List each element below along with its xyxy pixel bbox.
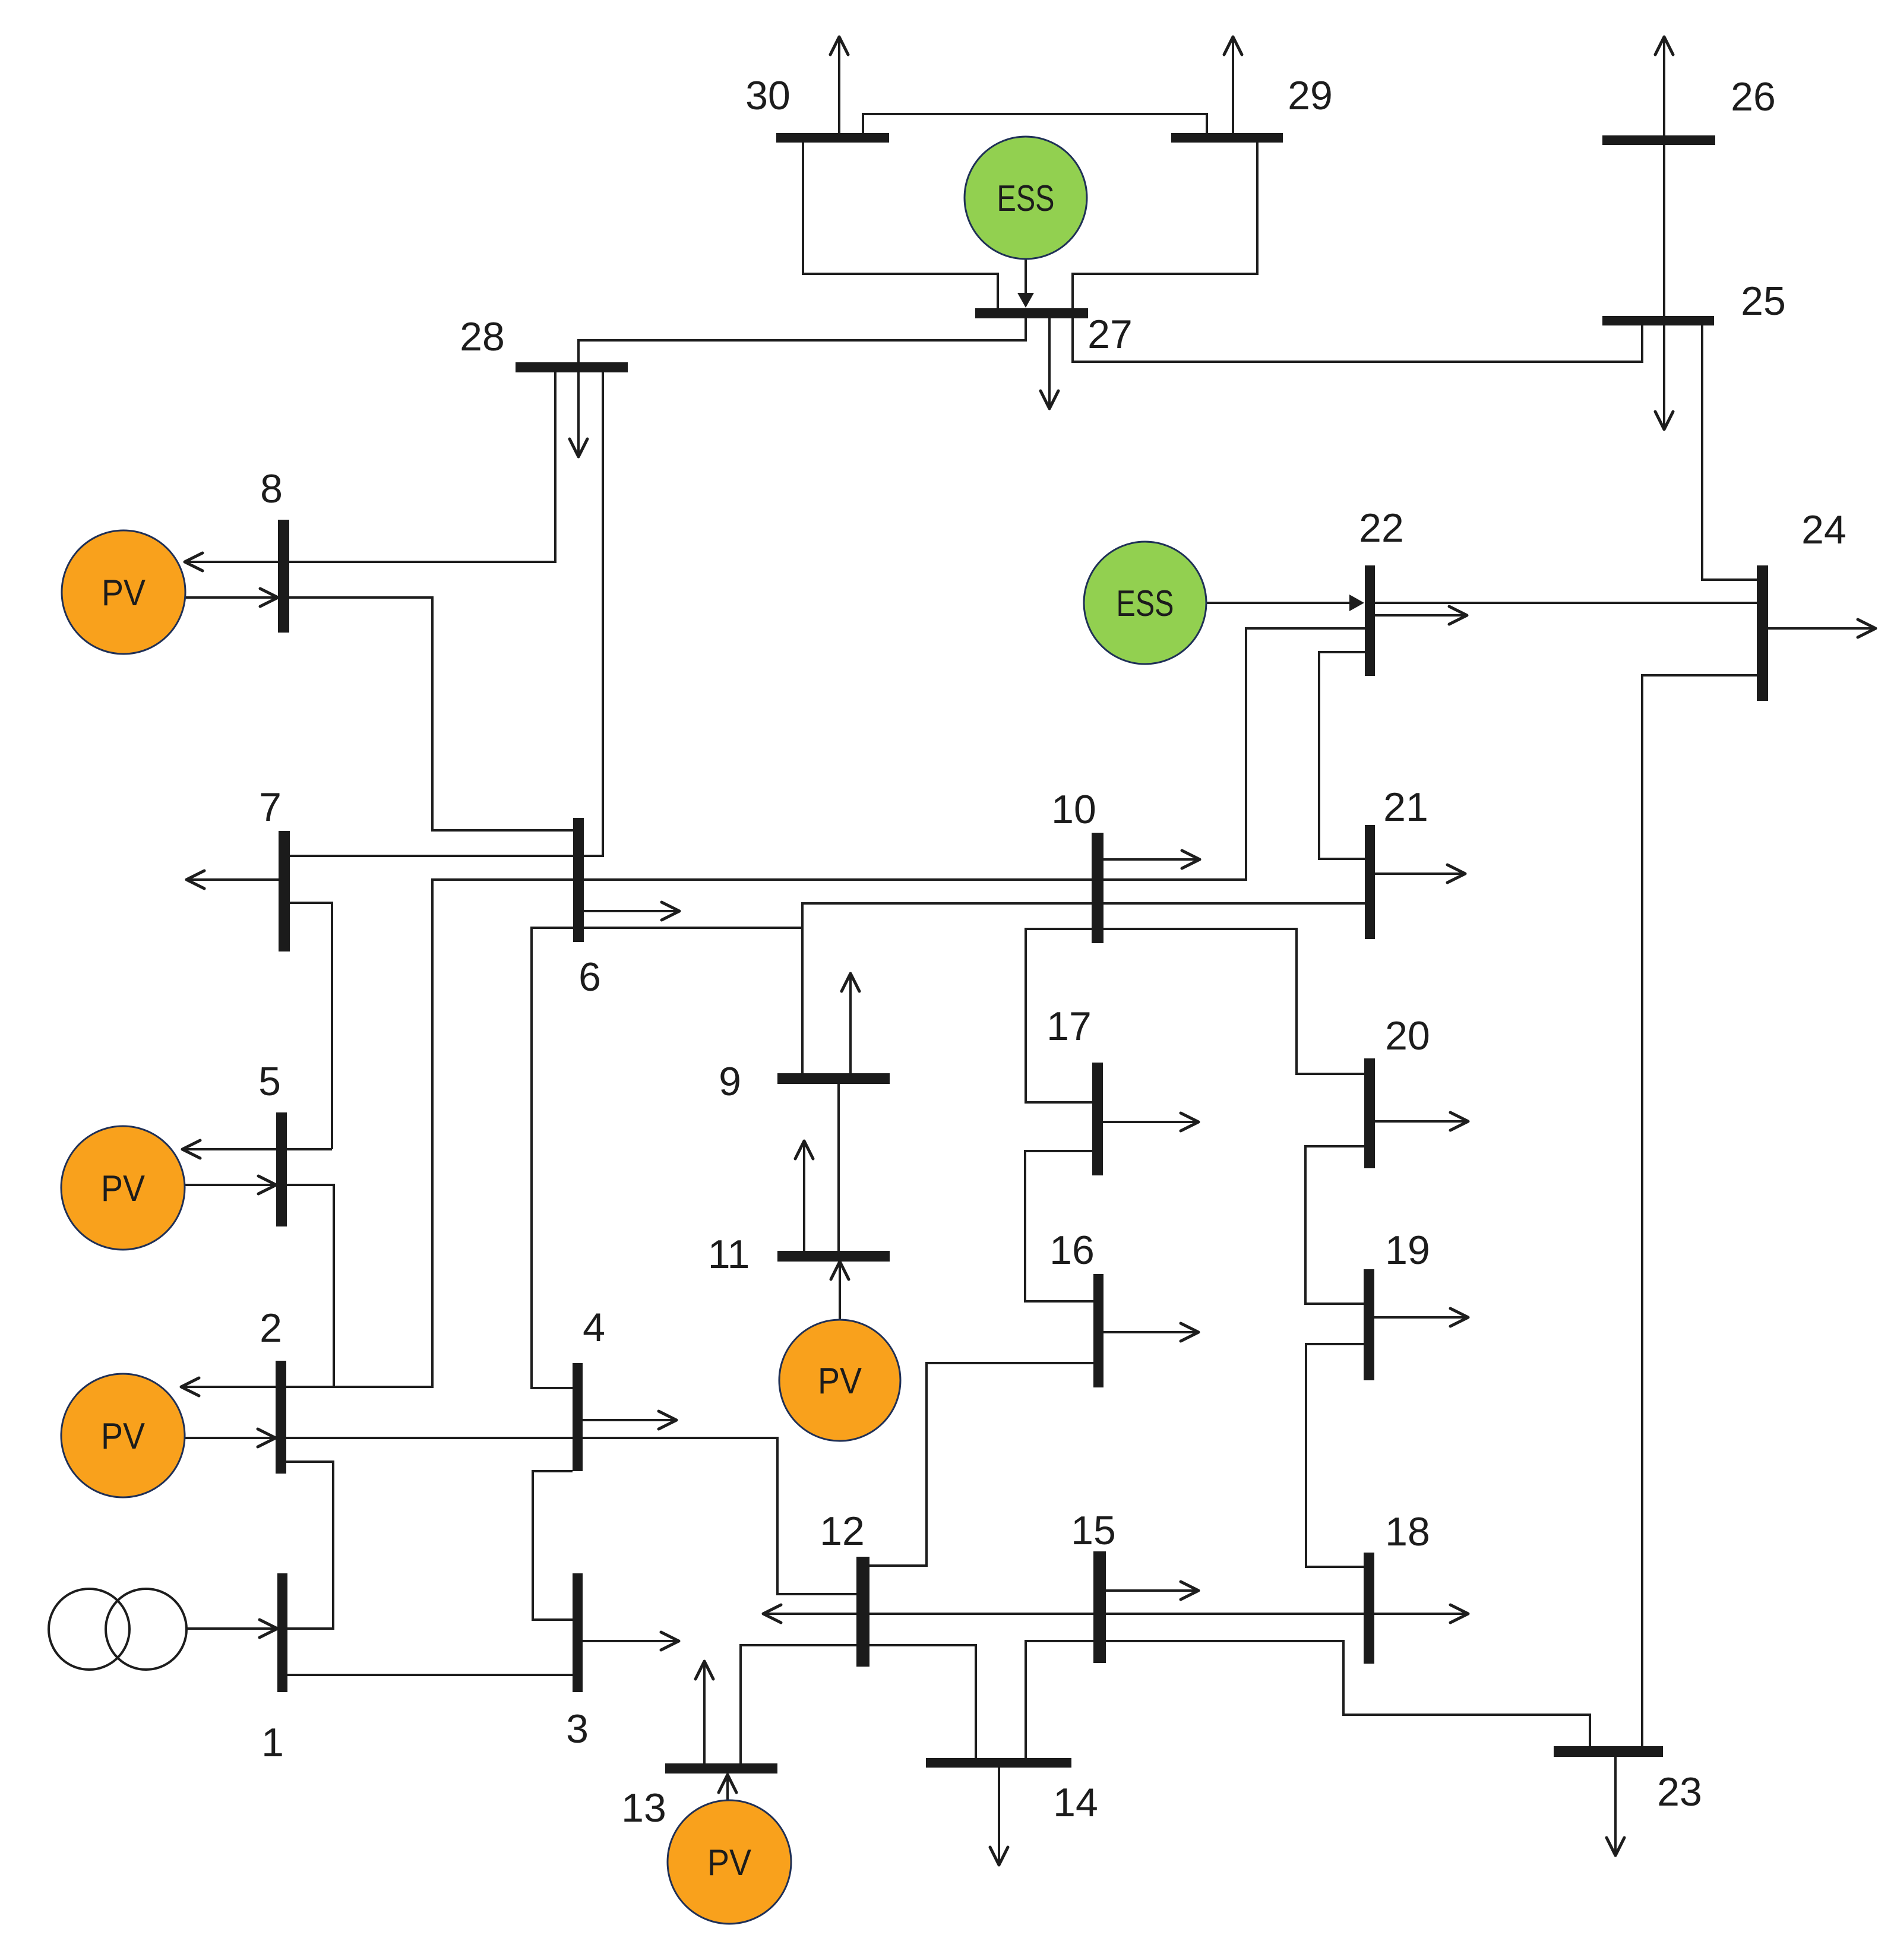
ESS U2 at bus 22: [1084, 542, 1206, 664]
load arrow bus 23: [1607, 1757, 1624, 1855]
load arrow bus 7: [186, 871, 279, 889]
bus 18: [1364, 1553, 1374, 1664]
wire 1-3: [287, 1674, 573, 1676]
wire 3-4: [533, 1471, 573, 1620]
wire 19-18: [1306, 1344, 1364, 1567]
bus 4: [573, 1363, 583, 1471]
wire PV-2-4-12 with arrow into bus 2: [185, 1429, 856, 1594]
bus 23: [1554, 1746, 1663, 1757]
svg-text:14: 14: [1053, 1780, 1098, 1825]
wire 30-29: [863, 114, 1207, 133]
load arrow bus 29: [1224, 37, 1242, 133]
svg-text:PV: PV: [102, 573, 146, 614]
wire 28-6: [584, 372, 603, 856]
wire 7-6: [290, 855, 573, 857]
load arrow bus 28: [570, 372, 587, 457]
svg-text:PV: PV: [818, 1361, 862, 1402]
wire PV-5 with arrow into bus 5: [185, 1176, 276, 1194]
svg-text:16: 16: [1049, 1228, 1095, 1273]
svg-text:29: 29: [1288, 73, 1333, 118]
svg-text:20: 20: [1385, 1013, 1430, 1058]
PV generator at bus 8: [62, 530, 185, 654]
bus 30: [776, 133, 889, 143]
load arrow bus 22: [1375, 606, 1467, 624]
svg-text:6: 6: [578, 954, 601, 1000]
load arrow bus 4: [583, 1411, 676, 1429]
svg-text:2: 2: [260, 1305, 282, 1351]
wire 29-27-25: [1073, 143, 1642, 362]
bus 7: [279, 831, 290, 951]
load arrow bus 15: [1106, 1582, 1199, 1599]
bus 2: [276, 1361, 286, 1474]
svg-text:1: 1: [261, 1720, 284, 1765]
wire 12-15-18 with load arrows bus 12 and bus 18: [763, 1605, 1468, 1623]
svg-text:9: 9: [719, 1059, 741, 1104]
load arrow bus 24: [1768, 619, 1876, 637]
svg-text:18: 18: [1385, 1509, 1430, 1554]
wire 25-24: [1702, 325, 1757, 580]
svg-text:22: 22: [1359, 505, 1404, 551]
wire PV-11 arrow into bus 11: [831, 1262, 849, 1320]
wire 16-12: [869, 1363, 1093, 1566]
bus 24: [1757, 565, 1768, 701]
wire 9-11: [837, 1084, 840, 1251]
wire 22-21: [1319, 652, 1365, 859]
svg-text:3: 3: [566, 1706, 589, 1752]
svg-text:PV: PV: [707, 1842, 752, 1883]
svg-text:30: 30: [745, 73, 791, 118]
load arrow bus 30: [830, 37, 848, 133]
svg-text:19: 19: [1385, 1228, 1430, 1273]
bus 8: [278, 520, 289, 633]
load arrow bus 11: [795, 1141, 813, 1251]
wire 9-10-21: [802, 903, 1365, 1073]
PV generator at bus 2: [61, 1374, 185, 1497]
svg-text:28: 28: [460, 314, 505, 359]
bus 14: [926, 1758, 1071, 1768]
svg-text:24: 24: [1801, 507, 1846, 552]
wire 26-25 with load arrows: [1655, 37, 1673, 429]
wire 24-23: [1642, 675, 1757, 1746]
load arrow bus 10: [1103, 851, 1200, 868]
load arrow bus 16: [1103, 1323, 1199, 1341]
wire 17-10-20: [1026, 929, 1364, 1102]
svg-text:PV: PV: [101, 1168, 146, 1209]
bus 17: [1092, 1063, 1103, 1175]
wire 22-24: [1375, 602, 1757, 604]
PV generator at bus 5: [61, 1126, 185, 1250]
svg-text:17: 17: [1046, 1004, 1092, 1049]
load arrow bus 27: [1041, 318, 1058, 409]
svg-text:25: 25: [1741, 279, 1786, 324]
svg-text:ESS: ESS: [1117, 583, 1174, 624]
bus 28: [516, 362, 628, 372]
wire generator to bus 1: [186, 1620, 277, 1637]
wire 5 arrow line (load arrow bus 5): [182, 1140, 332, 1158]
bus 21: [1365, 825, 1375, 939]
wire 2-6-10-22 chain with load arrow bus 2: [181, 628, 1365, 1396]
load arrow bus 20: [1375, 1112, 1468, 1130]
wire 30-27: [803, 143, 998, 308]
svg-text:27: 27: [1087, 312, 1133, 357]
load arrow bus 3: [583, 1632, 679, 1650]
PV generator at bus 11: [779, 1320, 900, 1441]
wire 20-19: [1305, 1146, 1364, 1304]
bus 20: [1364, 1058, 1375, 1168]
load arrow bus 19: [1374, 1308, 1468, 1326]
bus 26: [1602, 135, 1715, 145]
bus 15: [1093, 1551, 1106, 1663]
bus 19: [1364, 1269, 1374, 1380]
bus 12: [856, 1557, 869, 1667]
ESS U1 connection arrow to bus 27: [1017, 259, 1034, 308]
wire 4-6-9: [532, 928, 802, 1388]
wire 13-12-14: [741, 1645, 976, 1763]
bus 10: [1092, 833, 1103, 943]
bus 13: [665, 1763, 777, 1774]
wire 5-2: [287, 1185, 334, 1387]
load arrow bus 6: [584, 902, 679, 920]
svg-text:10: 10: [1051, 787, 1096, 832]
svg-text:PV: PV: [101, 1416, 146, 1457]
wire 1-2: [286, 1462, 333, 1629]
svg-text:15: 15: [1071, 1508, 1116, 1553]
svg-text:5: 5: [258, 1059, 281, 1104]
ESS U2 connection arrow to bus 22: [1207, 595, 1364, 611]
svg-text:13: 13: [621, 1785, 666, 1831]
svg-text:ESS: ESS: [997, 178, 1055, 219]
svg-text:4: 4: [583, 1305, 605, 1350]
wire 14-15-23: [1026, 1641, 1590, 1758]
svg-text:26: 26: [1731, 74, 1776, 119]
bus 3: [573, 1573, 583, 1692]
bus 9: [777, 1073, 890, 1084]
svg-text:11: 11: [708, 1232, 750, 1277]
wire 27-28: [578, 318, 1026, 362]
bus 22: [1365, 565, 1375, 676]
wire 28-8 with load arrow bus 8: [185, 372, 555, 571]
svg-text:23: 23: [1657, 1769, 1702, 1814]
PV generator at bus 13: [668, 1800, 791, 1924]
wire 17-16: [1025, 1151, 1093, 1301]
wire PV-13 arrow into bus 13: [719, 1775, 736, 1800]
bus 6: [573, 818, 584, 942]
bus 29: [1171, 133, 1283, 143]
wire PV-8-6 with arrow into bus 8: [185, 589, 573, 830]
load arrow bus 9: [842, 973, 859, 1073]
svg-text:8: 8: [260, 466, 283, 511]
load arrow bus 14: [990, 1768, 1008, 1865]
ESS U1 at bus 27: [965, 137, 1087, 259]
load arrow bus 17: [1103, 1113, 1199, 1131]
svg-text:21: 21: [1383, 785, 1428, 830]
load arrow bus 21: [1375, 865, 1465, 883]
bus 11: [777, 1251, 890, 1262]
load arrow bus 13: [695, 1661, 713, 1763]
bus 25: [1602, 316, 1714, 325]
bus 1: [277, 1573, 287, 1692]
grid generator at bus 1: [49, 1589, 186, 1670]
bus 16: [1093, 1274, 1103, 1387]
svg-text:7: 7: [259, 785, 282, 830]
bus 27: [975, 308, 1088, 318]
bus 5: [276, 1112, 287, 1226]
svg-text:12: 12: [820, 1509, 865, 1554]
wire 7-5: [290, 903, 332, 1149]
